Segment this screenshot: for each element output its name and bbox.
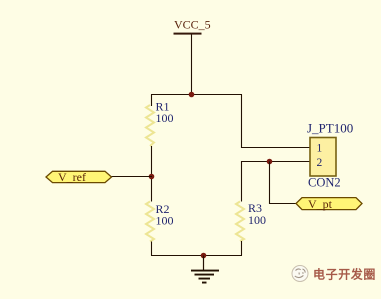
wire bottom rail [151,255,242,257]
wire right column (rail to pin1) [242,95,311,148]
wire pin2 node to V_pt port [270,162,297,204]
junction V_ref node [149,174,155,180]
ground [191,256,219,284]
wire R3 bottom to ground rail [241,241,243,256]
svg-text:V_ref: V_ref [58,170,86,184]
junction pin2 node [267,159,273,165]
svg-text:VCC_5: VCC_5 [174,18,211,32]
connector U: J_PT100 / CON2 [307,121,353,190]
port V_ref [46,170,112,184]
junction ground node [201,253,207,259]
wire left column top (rail to R1) [151,95,153,107]
resistor R1 [146,100,174,147]
svg-text:100: 100 [248,213,266,227]
svg-text:V_pt: V_pt [308,197,333,211]
wire R2 bottom to ground rail [151,242,153,256]
watermark logo [292,266,308,282]
wire top rail [151,94,242,96]
wire pin2 to R3 top [242,162,311,202]
wire R1 bottom to V_ref node [151,146,153,202]
svg-text:电子开发圈: 电子开发圈 [313,267,376,282]
junction VCC node [189,92,195,98]
svg-text:CON2: CON2 [308,176,341,190]
resistor R2 [146,202,174,242]
port V_pt [296,197,362,211]
svg-text:J_PT100: J_PT100 [307,121,353,136]
svg-text:2: 2 [317,157,323,169]
wire V_ref port to node [112,176,153,178]
svg-text:100: 100 [156,111,174,125]
power symbol VCC_5 [174,18,211,35]
svg-text:100: 100 [156,214,174,228]
wire VCC stem [191,35,193,95]
svg-text:1: 1 [317,143,323,155]
resistor R3 [236,201,266,241]
